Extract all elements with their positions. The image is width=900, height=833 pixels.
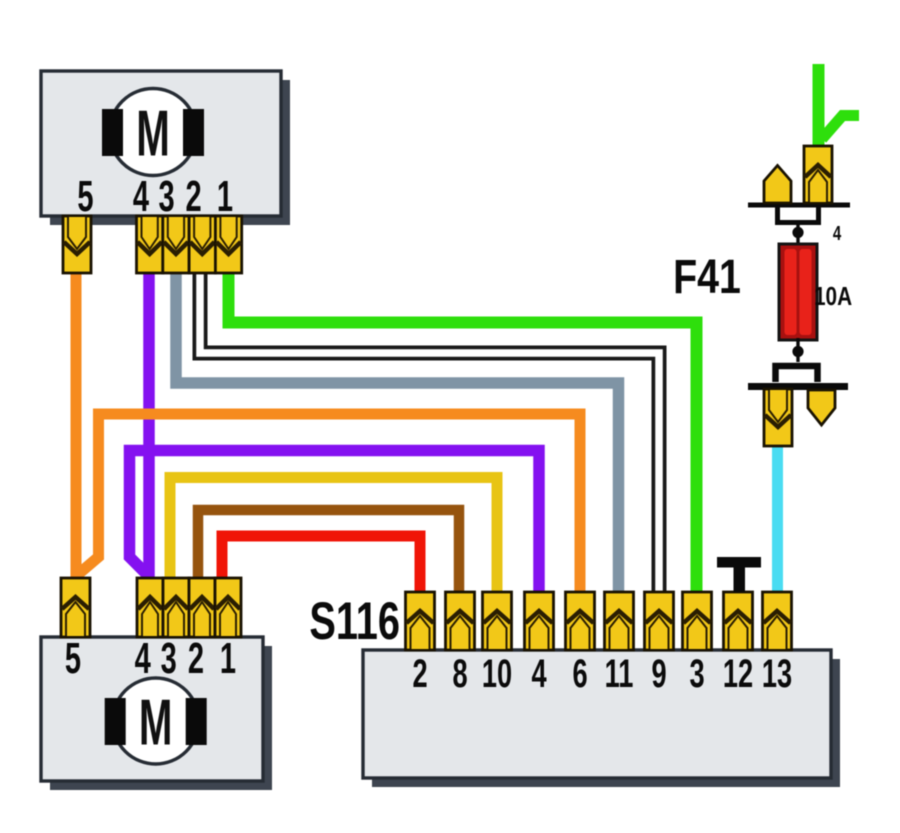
connector pin 8 (S116) — [446, 592, 475, 650]
connector pin 10 (S116) — [483, 592, 512, 650]
motor symbol M (top) — [102, 89, 204, 176]
connector pin 3 (bottom motor) — [163, 578, 189, 637]
svg-text:2: 2 — [186, 171, 202, 221]
fuse holder terminal arrow down (bottom right) — [808, 390, 835, 425]
svg-text:8: 8 — [452, 652, 467, 696]
fuse F41 body — [779, 244, 817, 340]
connector pin 12 (S116) — [724, 592, 753, 650]
svg-text:13: 13 — [762, 652, 792, 696]
fuse holder terminal arrow up (top left) — [764, 166, 791, 204]
fuse top bracket — [778, 207, 819, 223]
wire red: bottom motor pin1 to S116 pin 2 — [222, 536, 420, 594]
fuse holder top bar — [748, 203, 850, 208]
svg-text:2: 2 — [412, 652, 427, 696]
svg-text:5: 5 — [77, 171, 93, 221]
connector pin 1 (top motor) — [215, 216, 241, 273]
svg-text:10A: 10A — [814, 282, 852, 311]
connector pin 11 (S116) — [605, 592, 634, 650]
svg-text:F41: F41 — [673, 250, 741, 304]
svg-text:1: 1 — [220, 633, 236, 683]
svg-text:3: 3 — [161, 633, 177, 683]
control unit box S116 (bottom right) shadow — [372, 659, 840, 787]
connector pin 2 (top motor) — [189, 216, 215, 273]
junction T symbol above S116 pin 12 — [717, 557, 761, 592]
svg-text:4: 4 — [133, 171, 149, 221]
fuse holder bottom bar — [748, 383, 848, 390]
wire yellow: bottom motor pin3 to S116 pin 10 — [170, 478, 497, 595]
connector pin 5 (bottom motor) — [61, 578, 90, 637]
fuse top stem and junction dot — [796, 224, 799, 246]
wire cyan: fuse F41 output to S116 pin 13 — [772, 444, 783, 593]
svg-text:9: 9 — [651, 652, 666, 696]
motor symbol M (bottom) — [105, 678, 207, 764]
motor control unit box (top) shadow — [50, 80, 290, 225]
fuse bottom stem and junction dot — [796, 338, 799, 362]
svg-text:4: 4 — [135, 633, 151, 683]
svg-text:2: 2 — [188, 633, 204, 683]
fuse output terminal pin (cyan wire) — [764, 389, 792, 446]
svg-text:6: 6 — [572, 652, 587, 696]
connector pin 5 (top motor) — [63, 216, 91, 273]
connector pin 3 (S116) — [683, 592, 712, 650]
svg-text:5: 5 — [65, 633, 81, 683]
connector pin 1 (bottom motor) — [215, 578, 241, 637]
control unit box S116 (bottom right) — [363, 650, 831, 778]
svg-text:4: 4 — [833, 222, 841, 245]
wire green supply into fuse F41 — [813, 64, 825, 147]
svg-text:4: 4 — [531, 652, 546, 696]
svg-text:10: 10 — [482, 652, 512, 696]
connector pin 3 (top motor) — [163, 216, 189, 273]
connector pin 9 (S116) — [645, 592, 674, 650]
svg-text:S116: S116 — [309, 591, 400, 650]
svg-text:M: M — [136, 98, 170, 170]
wire orange: top motor pin5 down to bottom motor pin5 — [71, 272, 82, 580]
connector pin 13 (S116) — [763, 592, 792, 650]
svg-text:1: 1 — [217, 171, 233, 221]
svg-text:12: 12 — [723, 652, 753, 696]
connector pin 4 (bottom motor) — [137, 578, 163, 637]
wire purple branch: U-join to S116 pin 4 — [130, 451, 540, 595]
wire brown: bottom motor pin2 to S116 pin 8 — [198, 510, 459, 594]
wire purple: top motor pin4 down to bottom motor pin4 — [143, 272, 155, 580]
connector pin 4 (top motor) — [137, 216, 163, 273]
connector pin 2 (bottom motor) — [189, 578, 215, 637]
connector pin 4 (S116) — [525, 592, 554, 650]
fuse bottom bracket — [776, 366, 818, 382]
motor box (bottom) — [41, 637, 263, 781]
wire green supply branch stub — [822, 116, 859, 140]
svg-text:3: 3 — [689, 652, 704, 696]
wire white (black outline): top motor pin2 to S116 pin 9 — [200, 272, 659, 594]
wire green: top motor pin1 to S116 pin 3 — [229, 272, 697, 594]
svg-text:11: 11 — [605, 652, 634, 696]
connector pin 2 (S116) — [406, 592, 435, 650]
connector pin 6 (S116) — [566, 592, 595, 650]
motor box (bottom) shadow — [50, 646, 272, 790]
fuse input terminal pin (green wire) — [804, 146, 832, 203]
svg-text:3: 3 — [159, 171, 175, 221]
svg-text:M: M — [139, 687, 173, 759]
motor control unit box (top) — [41, 71, 281, 216]
wire orange branch: U-join to S116 pin 6 — [79, 414, 581, 594]
wire gray: top motor pin3 to S116 pin 11 — [176, 272, 619, 594]
